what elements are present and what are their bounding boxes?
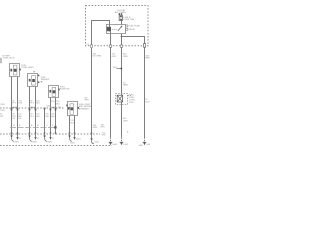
connector tick at wire 121 [120,45,122,47]
wire pair1 right [17,77,19,137]
svg-text:G403: G403 [146,144,150,146]
svg-text:PUMP SW: PUMP SW [60,89,70,91]
ground hook pair2 [28,135,30,138]
pin mark above B2 [33,71,34,72]
svg-text:BLK: BLK [36,103,40,105]
bottom dashed line [0,145,112,147]
wire 110 dashed tail + arrow [110,137,112,142]
svg-text:TANK: TANK [123,84,129,87]
wire 144 dashed tail + arrow [144,137,146,142]
wire coil return down [110,31,112,137]
wire pair4 right [74,116,76,137]
svg-text:GRY: GRY [45,116,50,118]
svg-text:LEVEL SENS: LEVEL SENS [21,67,34,69]
ground hook pair4 [68,135,70,138]
ground hook wire91 [90,138,92,141]
fuel tank dashed line y131.5 [0,133,100,135]
thin connector line y127.5 [10,127,54,129]
ground hook pair3 [43,135,45,138]
wire pair3 right [55,98,57,135]
wire branch right [122,37,145,138]
B2 pin nubs [38,75,39,77]
wire relay coil feed left leg [92,21,110,47]
wire fuse to relay [121,21,123,25]
fuse F (ECM B) [119,16,122,21]
svg-text:SENDER: SENDER [41,79,50,81]
relay coil link (dashed) [112,29,118,31]
svg-text:ASSEMBLY: ASSEMBLY [79,108,90,111]
svg-text:C305: C305 [145,102,150,104]
relay switch arm [118,27,122,31]
svg-text:FUEL MOD: FUEL MOD [3,57,15,59]
arrow pair1 [16,137,18,140]
svg-text:RED: RED [146,58,150,60]
splice S114 [117,68,122,70]
svg-text:G402: G402 [94,141,100,143]
B4 pin nub [78,107,79,109]
wire switch output down [121,34,123,138]
fuse holder nubs [119,13,120,15]
svg-text:BLK: BLK [70,122,74,124]
wire pair2 left [29,87,31,136]
fuel pump connector dashed box [116,94,128,105]
wire pair1 left [11,77,13,136]
svg-text:GRY: GRY [102,135,107,137]
svg-text:GRY: GRY [112,56,117,58]
connector tick at wire 110 [109,45,111,47]
svg-text:GRN: GRN [93,127,98,129]
relay coil [107,27,111,31]
svg-text:RELAY: RELAY [129,28,136,31]
arrow pair3 [49,137,51,140]
svg-text:ALL TIMES: ALL TIMES [115,11,127,14]
connector tick C at wire 91 [90,45,92,47]
B3 pin nub [58,89,59,91]
svg-text:BLK: BLK [36,116,40,118]
junction node [121,36,123,38]
fuel level sensor box B1 [10,64,20,77]
small connector block [54,126,56,128]
sensor box B2 [28,74,38,87]
svg-text:ORN: ORN [123,120,128,122]
connector X symbol [117,95,122,102]
svg-text:FUEL PUMP: FUEL PUMP [129,26,141,28]
svg-text:BLK: BLK [56,103,60,105]
svg-text:BLK: BLK [51,116,55,118]
svg-text:GRN: GRN [84,100,89,102]
wire pair4 left [69,116,71,136]
svg-text:DK GRN: DK GRN [93,56,102,58]
wire pair3 left [50,98,52,137]
sensor box B4 [68,102,78,116]
pair bracket bars [11,106,18,108]
svg-text:GRY: GRY [101,127,106,129]
wire from splice dot [44,108,46,135]
ground hook pair1 [10,135,12,138]
fuel pump relay box [107,25,126,34]
B4 left pin nub [66,105,67,107]
wire 91 continues through [91,48,93,138]
tank line pins [11,132,12,134]
connector pins on wires [11,108,13,110]
connector line C305 [0,107,65,109]
arrow pair4 [73,137,75,140]
arrow pair2 [34,137,36,140]
relay pin squares [126,25,128,27]
svg-text:FUSE 10A: FUSE 10A [123,18,134,21]
B1 label [19,69,21,71]
wire 121 dashed tail + arrow [121,137,123,142]
svg-text:ORN: ORN [123,56,128,58]
wire pair2 right [35,87,37,137]
connector tick at wire 144 [143,44,145,48]
sensor box B3 [49,86,59,98]
underhood electrical center dashed box [86,6,149,46]
svg-text:BLK: BLK [19,103,23,105]
